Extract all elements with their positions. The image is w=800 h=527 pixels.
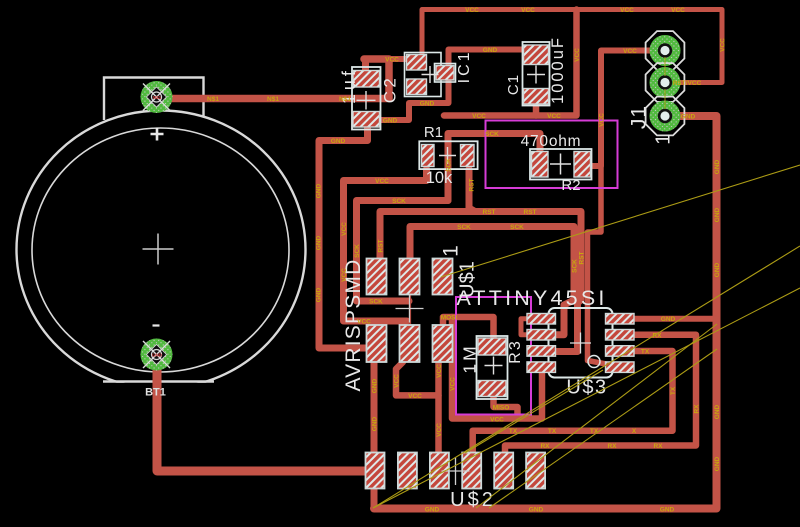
- svg-text:N$1: N$1: [267, 96, 279, 103]
- svg-text:GND: GND: [681, 114, 696, 121]
- airwire J1 pin2-pin3: [664, 89, 666, 109]
- wire TX US3 right pad3 to US2 pad4: [473, 351, 673, 455]
- US3 pin1 circle: [588, 356, 600, 368]
- svg-text:VCC: VCC: [465, 7, 479, 14]
- wire battery- to US2 pad1: [157, 355, 370, 471]
- svg-text:1: 1: [653, 134, 675, 145]
- svg-text:VCC: VCC: [599, 113, 606, 127]
- svg-text:GND: GND: [420, 101, 435, 108]
- svg-text:RX: RX: [540, 443, 550, 450]
- wire MOSI R3 top pad to US1 pad6: [443, 317, 494, 340]
- svg-text:SCK: SCK: [510, 224, 524, 231]
- wire SCK run to US3: [410, 227, 574, 335]
- svg-text:RX: RX: [607, 443, 617, 450]
- svg-text:GND: GND: [316, 235, 323, 250]
- svg-text:VCC: VCC: [547, 113, 561, 120]
- svg-text:J1: J1: [628, 105, 651, 129]
- wire MISO R3 bottom pad to US3 pad4: [494, 370, 543, 419]
- svg-text:RST: RST: [483, 209, 496, 216]
- wire VCC R1 left pad down-left run: [344, 169, 427, 321]
- net labels on traces: [207, 7, 726, 514]
- svg-text:GND: GND: [660, 507, 675, 514]
- svg-text:VCC: VCC: [490, 417, 504, 424]
- US3 right pads: [606, 314, 635, 373]
- svg-text:SCK: SCK: [485, 131, 499, 138]
- svg-text:C2: C2: [381, 75, 400, 104]
- J1 pin 2 pad: [646, 63, 685, 102]
- svg-text:BT1: BT1: [145, 387, 166, 399]
- svg-text:SCK: SCK: [369, 299, 383, 306]
- svg-text:VCC: VCC: [375, 178, 389, 185]
- svg-text:GND: GND: [714, 159, 721, 174]
- airwire US2 pad1 a: [373, 246, 800, 508]
- svg-text:470ohm: 470ohm: [521, 133, 582, 150]
- svg-text:TX: TX: [548, 428, 557, 435]
- svg-text:GND: GND: [714, 207, 721, 222]
- battery pad - (bottom through-hole): [141, 339, 173, 371]
- wire GND US3 right pad1 to right rail: [634, 316, 717, 322]
- US3 pad 3: [527, 346, 556, 357]
- svg-text:GND: GND: [372, 416, 379, 431]
- svg-text:VCC: VCC: [574, 48, 581, 62]
- wire RST R1 right pad stub: [469, 169, 475, 212]
- US1 pad 3: [433, 259, 453, 295]
- resistor R2: [530, 149, 592, 180]
- svg-text:RST: RST: [469, 178, 476, 191]
- svg-text:N$1: N$1: [153, 95, 162, 100]
- ISP header US1 pads: [367, 259, 453, 363]
- svg-text:VCC: VCC: [394, 374, 401, 388]
- capacitor C2: [352, 67, 381, 130]
- airwire US2 pad4 to US3: [465, 370, 603, 453]
- wire C2 top pad stub N$1: [362, 59, 369, 71]
- svg-text:GND: GND: [316, 183, 323, 198]
- magenta frame around R3: [456, 297, 531, 415]
- svg-text:VCC: VCC: [521, 7, 535, 14]
- wire RX US3 right pad2 to US2 pad5: [505, 335, 696, 455]
- svg-text:GND: GND: [714, 404, 721, 419]
- US3 pad 7: [606, 330, 635, 341]
- US1 origin cross: [396, 295, 424, 323]
- wire GND US2 pad1 to bottom rail: [371, 486, 378, 509]
- svg-text:GND: GND: [714, 456, 721, 471]
- US1 pad 2: [400, 259, 420, 295]
- battery BT1 origin cross: [143, 234, 174, 265]
- airwire J1 pin1-pin2: [664, 57, 666, 76]
- svg-text:GND: GND: [425, 507, 440, 514]
- svg-text:VCC: VCC: [385, 57, 399, 64]
- svg-text:TX: TX: [670, 386, 677, 395]
- svg-text:VCC: VCC: [436, 423, 443, 437]
- svg-text:VCC: VCC: [341, 268, 348, 282]
- airwire US1 pad3: [441, 165, 800, 277]
- US2 pad 5: [494, 453, 513, 489]
- regulator IC1: [405, 53, 456, 97]
- J1 pin 3 pad: [646, 97, 685, 136]
- wire SCK US1 pad2 loop left: [357, 201, 449, 302]
- US1 pad 5: [400, 325, 420, 362]
- svg-text:VCC: VCC: [623, 48, 637, 55]
- US3 pad 4: [527, 362, 556, 373]
- wire US3 pad1-pad2 link: [521, 319, 527, 335]
- svg-text:R1: R1: [424, 124, 443, 141]
- US1 pad 4: [367, 325, 387, 362]
- svg-text:1000uF: 1000uF: [549, 36, 567, 104]
- svg-text:RST: RST: [524, 209, 537, 216]
- wire RST run to US3: [380, 212, 581, 352]
- US3 pad 2: [527, 330, 556, 341]
- US2 pad 1: [366, 453, 385, 489]
- svg-text:GND: GND: [316, 287, 323, 302]
- battery BT1 plus mark: [151, 128, 164, 141]
- wire GND IC1 to C1 top: [449, 50, 525, 69]
- wire VCC J1 pin1 to R2 right pad: [591, 51, 657, 167]
- wire VCC top rail: [422, 10, 722, 83]
- wire VCC along magenta box left edge: [452, 317, 518, 419]
- US3 pad 8: [606, 314, 635, 325]
- svg-text:IC1: IC1: [456, 49, 473, 83]
- svg-text:GND: GND: [152, 353, 163, 358]
- wire GND US1 pad4 to US2 pad1: [371, 361, 378, 455]
- svg-text:X: X: [632, 428, 637, 435]
- svg-text:N$1: N$1: [207, 96, 219, 103]
- pin header J1: [646, 31, 685, 135]
- svg-text:RX: RX: [694, 404, 701, 414]
- svg-text:VCC: VCC: [436, 364, 443, 378]
- battery pad + (top through-hole): [141, 81, 173, 113]
- svg-text:SCK: SCK: [457, 224, 471, 231]
- wire N$1 to IC1 pad: [380, 56, 408, 62]
- svg-text:GND: GND: [483, 47, 498, 54]
- US3 origin cross: [570, 333, 591, 354]
- wire VCC C1 bottom rail U-shape: [444, 10, 577, 116]
- wire J1 pin1-R2 net continues down to US3: [588, 160, 607, 364]
- svg-text:SCK: SCK: [446, 158, 453, 172]
- capacitor C1: [523, 42, 550, 106]
- US1 pad 6: [433, 325, 453, 362]
- svg-text:RX: RX: [653, 443, 663, 450]
- svg-text:SCK: SCK: [572, 259, 579, 273]
- svg-text:ATTINY45SI: ATTINY45SI: [456, 286, 607, 310]
- svg-text:GND: GND: [372, 378, 379, 393]
- wire N$1 battery+ to C2 and IC1: [157, 59, 389, 99]
- svg-text:R3: R3: [507, 339, 524, 363]
- svg-text:SCK: SCK: [354, 244, 361, 258]
- svg-text:GND: GND: [383, 118, 398, 125]
- resistor R3: [477, 336, 508, 399]
- svg-text:GND: GND: [529, 507, 544, 514]
- svg-text:VCC: VCC: [620, 7, 634, 14]
- US3 pad 5: [606, 362, 635, 373]
- svg-text:1M: 1M: [460, 343, 480, 373]
- svg-text:GND: GND: [714, 262, 721, 277]
- svg-text:MOSI: MOSI: [441, 315, 458, 322]
- svg-text:VCC: VCC: [720, 38, 727, 52]
- svg-text:VCC: VCC: [357, 319, 371, 326]
- svg-text:VCC: VCC: [472, 113, 486, 120]
- svg-text:RST: RST: [378, 239, 385, 252]
- svg-text:1: 1: [440, 245, 463, 257]
- airwire US2 pad5 to GND: [489, 349, 717, 508]
- svg-text:GND: GND: [661, 316, 676, 323]
- svg-text:RST: RST: [579, 251, 586, 264]
- US2 pad 2: [398, 453, 417, 489]
- svg-text:VCC: VCC: [671, 7, 685, 14]
- magenta frame around R2: [486, 121, 618, 189]
- airwires (ratsnest): [373, 57, 800, 508]
- svg-text:MISO: MISO: [493, 405, 510, 412]
- US2 origin cross: [442, 457, 470, 485]
- svg-text:SCK: SCK: [392, 198, 406, 205]
- svg-text:TX: TX: [641, 349, 650, 356]
- resistor R1: [419, 141, 477, 169]
- wire VCC US1 pad5 jog down: [396, 362, 439, 395]
- wire GND J1 pin3 down right side: [374, 116, 717, 509]
- svg-text:VCC: VCC: [408, 393, 422, 400]
- svg-text:RST/VCC: RST/VCC: [673, 80, 702, 87]
- svg-text:VCC: VCC: [450, 377, 457, 391]
- wire thin US1 pad2-pad5: [409, 295, 411, 324]
- svg-text:C1: C1: [505, 74, 522, 95]
- airwire US2 pad1 b: [373, 288, 800, 508]
- wire VCC C1 bottom pad stub: [533, 104, 540, 116]
- US3 left pads: [527, 314, 556, 373]
- wire GND IC1 to C2 bottom: [380, 78, 449, 120]
- wire VCC US1 pad6 to US2 pad3: [435, 363, 442, 455]
- US3 pad 6: [606, 346, 635, 357]
- svg-text:VCC: VCC: [341, 222, 348, 236]
- J1 pin 1 pad: [646, 31, 685, 70]
- battery holder BT1 outline: [17, 78, 306, 395]
- svg-text:GND: GND: [331, 138, 346, 145]
- IC US3 ATTINY45 body: [549, 308, 613, 378]
- US3 pad 1: [527, 314, 556, 325]
- connector US2 pads: [366, 453, 546, 489]
- svg-text:N$1: N$1: [339, 96, 351, 103]
- US2 pad 4: [462, 453, 481, 489]
- airwire US2 pad4 to GND: [476, 324, 717, 508]
- US1 pad 1: [367, 259, 387, 295]
- US2 pad 3: [430, 453, 449, 489]
- wire GND C2 bottom stub to left GND run: [319, 127, 368, 348]
- wire SCK vertical to R2 left pad: [448, 134, 540, 201]
- svg-text:R2: R2: [561, 177, 580, 194]
- US2 pad 6: [526, 453, 545, 489]
- battery BT1 minus mark: [153, 324, 160, 326]
